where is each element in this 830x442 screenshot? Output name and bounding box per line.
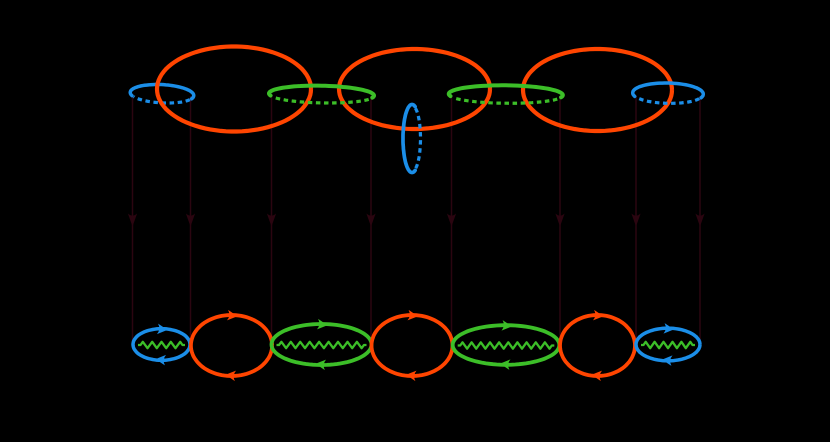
blue boundary fiber circle top-left (130, 83, 194, 105)
projection line 7 (631, 96, 640, 342)
green base circle 1 (272, 319, 372, 370)
green base circle 2 (453, 320, 560, 370)
blue base circle bottom-left (133, 324, 190, 366)
orange torus circle 1 (157, 47, 311, 132)
wavy line in green base circle 2 (458, 342, 555, 348)
projection line 1 (128, 96, 137, 342)
projection line 2 (186, 96, 195, 342)
green gluing circle top 1 (269, 85, 374, 104)
projection line 6 (555, 96, 564, 342)
green gluing circle top 2 (449, 85, 563, 104)
orange base circle 1 (191, 310, 272, 381)
projection line 4 (366, 96, 375, 342)
wavy line in green base circle 1 (277, 342, 367, 348)
wavy line in blue base circle bottom-right (641, 342, 695, 348)
blue boundary fiber circle top-right (633, 82, 704, 104)
blue base circle bottom-right (636, 323, 700, 366)
orange torus circle 3 (523, 49, 672, 131)
projection line 3 (267, 96, 276, 342)
orange torus circle 2 (339, 49, 490, 129)
orange base circle 3 (560, 310, 635, 381)
projection line 8 (695, 96, 704, 342)
projection line 5 (447, 96, 456, 342)
orange base circle 2 (372, 310, 453, 381)
blue vertical fiber circle (middle) (403, 105, 421, 173)
wavy line in blue base circle bottom-left (138, 342, 185, 348)
